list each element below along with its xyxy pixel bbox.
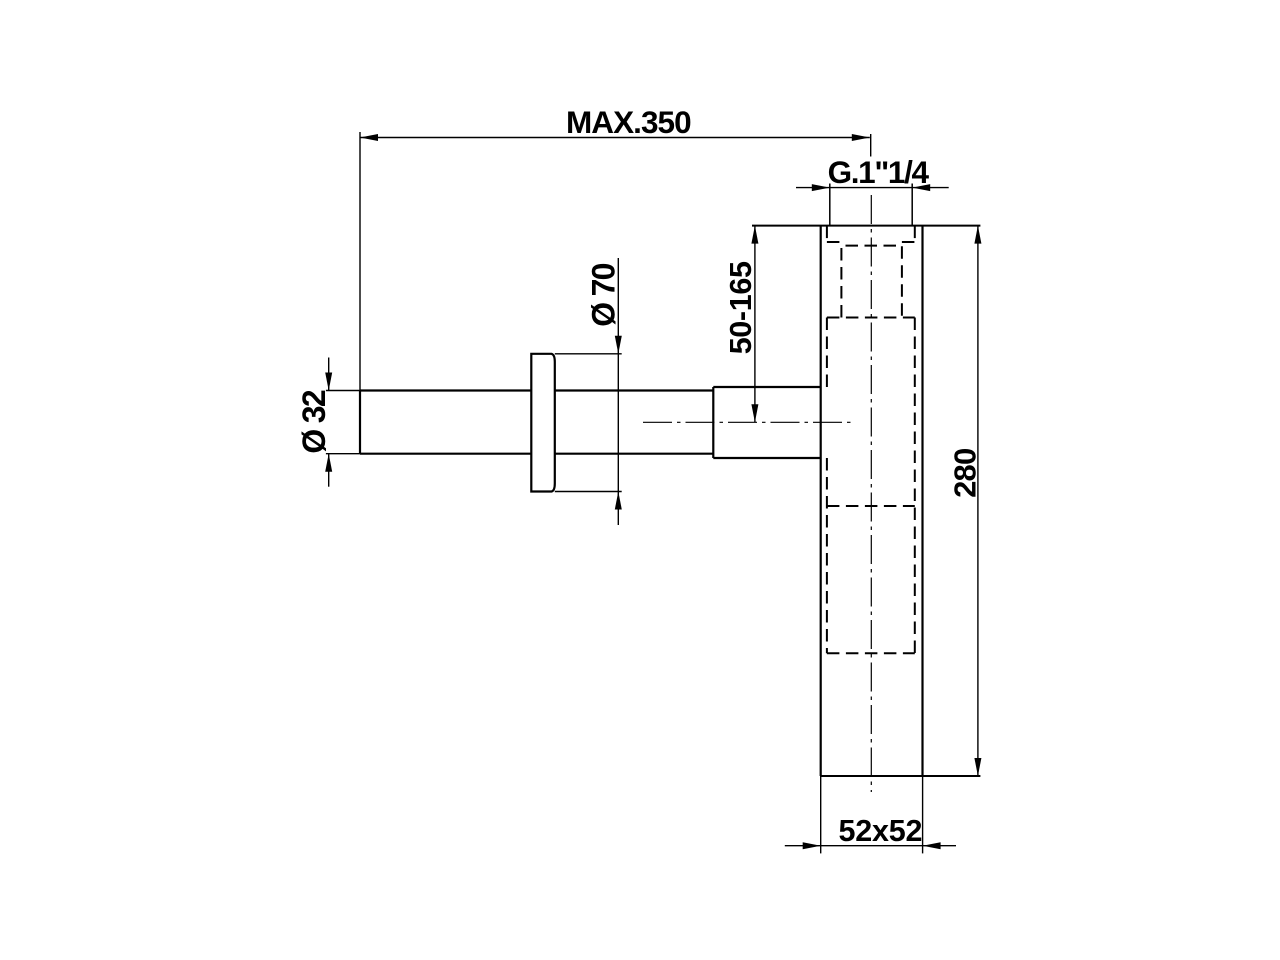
flange Ø70: [531, 354, 555, 492]
body bottom edge with extension line: [821, 775, 981, 777]
dimension MAX.350 arrow left: [360, 134, 378, 141]
dimension 50-165 arrow bottom: [751, 404, 758, 422]
dimension MAX.350 extension left: [359, 132, 361, 391]
svg-text:Ø 32: Ø 32: [296, 390, 332, 453]
dimension D32 line top: [328, 358, 330, 391]
body top edge with extension line: [752, 225, 980, 227]
dimension 50-165 arrow top: [751, 226, 758, 244]
hidden dashed inner tube upper: [841, 246, 902, 318]
hidden dashed step at y317: [827, 317, 915, 319]
dimension 52x52 line: [785, 845, 956, 847]
centerline horizontal pipe axis: [643, 421, 852, 423]
dimension G arrow right: [912, 184, 930, 191]
dimension D32 line bottom: [328, 454, 330, 487]
hidden dashed bottom y653: [827, 652, 915, 654]
dimension MAX.350 extension right: [870, 134, 872, 157]
svg-text:280: 280: [947, 449, 982, 498]
threaded neck G1-1/4: [830, 184, 912, 226]
pipe Ø32 horizontal outline: [360, 391, 713, 454]
dimension D70 arrow top: [615, 336, 622, 354]
hidden dashed body left side: [826, 318, 828, 654]
svg-text:50-165: 50-165: [724, 261, 758, 354]
dimension MAX.350 line: [360, 137, 870, 139]
svg-text:Ø 70: Ø 70: [585, 263, 621, 326]
dimension 52x52 extension left: [820, 776, 822, 853]
svg-text:MAX.350: MAX.350: [566, 104, 691, 140]
compression fitting outline: [713, 387, 820, 458]
dimension MAX.350 arrow right: [852, 134, 870, 141]
hidden dashed mid step y506: [827, 505, 915, 507]
dimension D70 extension top: [555, 353, 622, 355]
dimension 52x52 extension right: [922, 776, 924, 853]
svg-text:G.1"1/4: G.1"1/4: [828, 154, 930, 190]
dimension 280 line: [977, 226, 979, 776]
svg-text:52x52: 52x52: [839, 814, 923, 848]
dimension 52x52 arrow left: [803, 842, 821, 849]
dimension G arrow left: [812, 184, 830, 191]
dimension 50-165 line: [754, 226, 756, 423]
dimension D32 extension top: [326, 390, 360, 392]
dimension D32 arrow bottom: [325, 454, 332, 472]
dimension D32 arrow top: [325, 373, 332, 391]
dimension D70 arrow bottom: [615, 492, 622, 510]
dimension D70 extension bottom: [555, 491, 622, 493]
dimension 280 arrow bottom: [974, 758, 981, 776]
hidden dashed body right side: [914, 318, 916, 654]
hidden dashed collar: [827, 226, 915, 243]
dimension 52x52 arrow right: [923, 842, 941, 849]
dimension 280 arrow top: [974, 226, 981, 244]
trap body 52x52 outline: [821, 226, 923, 776]
dimension G.1"1/4 line: [796, 187, 949, 189]
dimension D32 extension bottom: [326, 453, 360, 455]
dimension D70 line: [617, 258, 619, 525]
centerline vertical body axis: [870, 195, 872, 792]
